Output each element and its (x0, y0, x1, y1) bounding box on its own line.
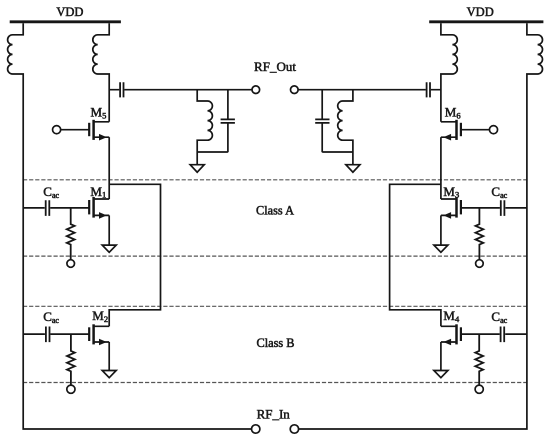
svg-text:Class A: Class A (256, 204, 294, 218)
svg-text:M1: M1 (90, 184, 106, 200)
svg-text:Cac: Cac (43, 184, 59, 200)
svg-text:Cac: Cac (491, 184, 507, 200)
svg-text:RF_In: RF_In (257, 406, 291, 421)
svg-text:Class B: Class B (257, 336, 295, 350)
svg-text:M3: M3 (443, 184, 459, 200)
svg-text:M6: M6 (445, 105, 461, 121)
svg-text:M5: M5 (91, 105, 107, 121)
svg-text:RF_Out: RF_Out (254, 59, 296, 74)
svg-text:M2: M2 (92, 308, 108, 324)
svg-text:Cac: Cac (491, 309, 507, 325)
svg-text:VDD: VDD (56, 5, 83, 19)
svg-text:VDD: VDD (467, 5, 494, 19)
svg-text:M4: M4 (443, 308, 460, 324)
svg-text:Cac: Cac (43, 309, 59, 325)
